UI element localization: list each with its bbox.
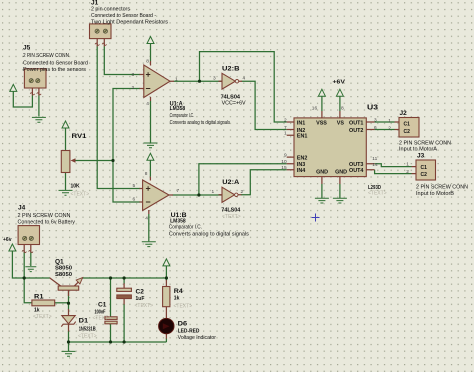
- svg-text:OUT4: OUT4: [349, 168, 363, 174]
- svg-text:Converts analog to digital sig: Converts analog to digital signals: [169, 231, 250, 237]
- svg-text:LED-RED: LED-RED: [178, 329, 200, 335]
- svg-text:Input to MotorB: Input to MotorB: [416, 191, 455, 197]
- svg-text:9: 9: [284, 152, 287, 158]
- svg-text:2: 2: [241, 189, 244, 195]
- svg-text:U3: U3: [367, 104, 378, 111]
- svg-text:Connected to Sensor Board -: Connected to Sensor Board -: [91, 13, 156, 19]
- svg-text:U2:A: U2:A: [222, 179, 239, 186]
- svg-text:2 PIN SCREW CONN: 2 PIN SCREW CONN: [23, 53, 69, 59]
- svg-text:C1: C1: [98, 301, 107, 308]
- svg-text:<TEXT>: <TEXT>: [222, 214, 241, 220]
- svg-text:1: 1: [388, 118, 391, 124]
- svg-text:<TEXT>: <TEXT>: [71, 191, 90, 197]
- svg-text:<TEXT>: <TEXT>: [368, 191, 387, 197]
- svg-text:EN1: EN1: [297, 134, 308, 140]
- svg-text:8: 8: [341, 105, 344, 111]
- svg-text:Input to MotorA: Input to MotorA: [399, 146, 438, 152]
- svg-text:8: 8: [146, 59, 149, 65]
- svg-text:OUT2: OUT2: [349, 128, 363, 134]
- svg-text:EN2: EN2: [297, 156, 308, 162]
- svg-text:VCC=+6V: VCC=+6V: [222, 101, 247, 107]
- svg-text:Power pins to the sensors: Power pins to the sensors: [23, 67, 87, 73]
- svg-text:2 pin connectors: 2 pin connectors: [91, 7, 131, 13]
- svg-text:Converts analog to digital sig: Converts analog to digital signals: [170, 120, 231, 126]
- svg-text:U2:B: U2:B: [222, 65, 240, 72]
- svg-text:LM358: LM358: [170, 218, 186, 224]
- svg-text:3: 3: [213, 76, 216, 82]
- svg-text:RV1: RV1: [72, 133, 87, 140]
- svg-text:R1: R1: [34, 293, 44, 300]
- svg-text:Connected to 6v Battery: Connected to 6v Battery: [18, 220, 76, 226]
- svg-text:1uF: 1uF: [136, 296, 145, 302]
- svg-text:3: 3: [132, 72, 135, 78]
- svg-text:<TEXT>: <TEXT>: [33, 314, 52, 320]
- svg-text:1k: 1k: [34, 307, 40, 313]
- svg-text:S8050: S8050: [55, 266, 72, 272]
- svg-text:LM358: LM358: [170, 106, 186, 112]
- svg-text:4: 4: [145, 215, 148, 221]
- svg-text:VSS: VSS: [316, 121, 327, 127]
- svg-text:4: 4: [146, 101, 149, 107]
- svg-text:16: 16: [312, 105, 318, 111]
- svg-text:Voltage Indicator: Voltage Indicator: [178, 335, 217, 341]
- svg-text:VS: VS: [337, 121, 345, 127]
- svg-text:D6: D6: [178, 320, 188, 327]
- svg-text:1: 1: [212, 189, 215, 195]
- svg-text:+6V: +6V: [333, 79, 346, 85]
- svg-text:8: 8: [145, 171, 148, 177]
- svg-text:Comparator I.C.: Comparator I.C.: [169, 225, 202, 231]
- svg-text:R4: R4: [174, 288, 183, 295]
- svg-text:S8050: S8050: [55, 272, 72, 278]
- svg-text:2: 2: [388, 125, 391, 131]
- svg-text:J5: J5: [23, 45, 31, 52]
- svg-text:+6v: +6v: [3, 237, 12, 243]
- svg-text:GND: GND: [335, 169, 347, 175]
- svg-text:2: 2: [132, 85, 135, 91]
- svg-text:IN1: IN1: [297, 121, 305, 127]
- svg-text:10: 10: [281, 159, 287, 165]
- svg-text:7: 7: [284, 125, 287, 131]
- svg-text:100nF: 100nF: [95, 309, 106, 315]
- svg-text:2 PIN SCREW CONN: 2 PIN SCREW CONN: [399, 140, 451, 146]
- svg-text:J4: J4: [18, 205, 26, 212]
- svg-text:1: 1: [175, 77, 178, 83]
- svg-text:J2: J2: [400, 110, 408, 117]
- svg-text:1k: 1k: [174, 295, 180, 301]
- svg-text:<TEXT>: <TEXT>: [93, 316, 112, 322]
- svg-text:3: 3: [374, 118, 377, 124]
- svg-text:7: 7: [177, 188, 180, 194]
- svg-text:GND: GND: [316, 169, 328, 175]
- svg-text:2 PIN SCREW CONN: 2 PIN SCREW CONN: [416, 184, 468, 190]
- svg-text:2 PIN SCREW CONN: 2 PIN SCREW CONN: [18, 213, 71, 219]
- svg-text:<TEXT>: <TEXT>: [78, 333, 97, 339]
- svg-text:<TEXT>: <TEXT>: [174, 303, 193, 309]
- svg-text:5: 5: [133, 183, 136, 189]
- svg-text:1: 1: [284, 131, 287, 137]
- svg-text:C2: C2: [136, 288, 145, 295]
- svg-text:6: 6: [133, 197, 136, 203]
- svg-text:15: 15: [281, 165, 287, 171]
- svg-text:J3: J3: [417, 153, 425, 160]
- svg-text:Q1: Q1: [55, 258, 64, 265]
- svg-text:4: 4: [243, 76, 246, 82]
- svg-text:Comparator I.C.: Comparator I.C.: [170, 113, 195, 119]
- svg-text:1N5231B: 1N5231B: [79, 326, 96, 332]
- svg-text:74LS04: 74LS04: [221, 208, 240, 214]
- svg-text:6: 6: [374, 125, 377, 131]
- svg-text:<TEXT>: <TEXT>: [135, 303, 154, 309]
- svg-text:2: 2: [406, 169, 409, 175]
- svg-text:C2: C2: [421, 172, 428, 178]
- svg-text:2: 2: [284, 118, 287, 124]
- svg-text:Two Light Dependant Resistors: Two Light Dependant Resistors: [91, 20, 169, 26]
- svg-text:C2: C2: [404, 129, 411, 135]
- svg-text:D1: D1: [79, 317, 89, 324]
- svg-text:10K: 10K: [71, 184, 81, 190]
- svg-text:OUT1: OUT1: [349, 121, 363, 127]
- svg-text:1: 1: [406, 162, 409, 168]
- svg-text:11: 11: [372, 156, 377, 162]
- svg-text:C1: C1: [421, 165, 428, 171]
- svg-text:IN4: IN4: [297, 168, 305, 174]
- svg-text:Connected to Sensor Board: Connected to Sensor Board: [23, 61, 88, 67]
- svg-text:C1: C1: [404, 121, 411, 127]
- svg-text:14: 14: [372, 162, 378, 168]
